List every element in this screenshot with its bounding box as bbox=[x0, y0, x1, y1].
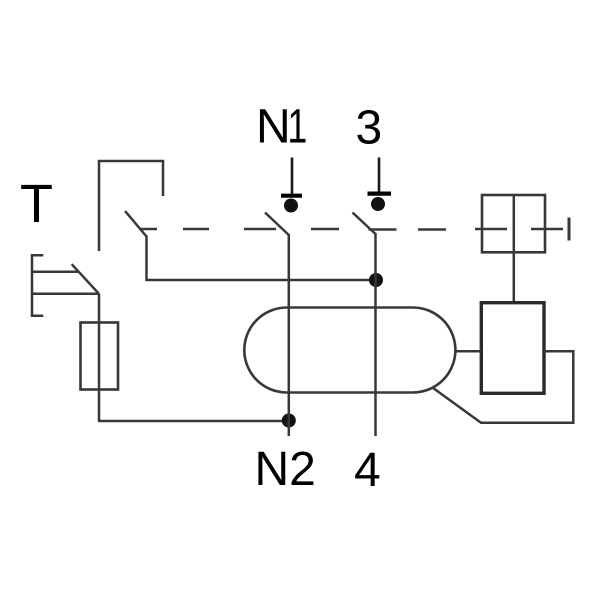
node N2 junction bbox=[282, 414, 296, 428]
switch contact blade (phase pole 3) bbox=[353, 213, 376, 235]
wire: CT secondary to relay (left) bbox=[455, 350, 481, 353]
switch contact blade (left pole, test circuit) bbox=[125, 211, 147, 237]
test button contact lower line bbox=[32, 293, 99, 296]
test button contact blade bbox=[72, 264, 99, 294]
trip relay box bbox=[481, 303, 544, 394]
switch contact blade (neutral pole N1) bbox=[265, 213, 289, 236]
wire: test circuit bottom run to N2 bbox=[98, 420, 289, 423]
terminal bar N1 bbox=[281, 194, 302, 198]
terminal dot N1 bbox=[284, 199, 298, 213]
mechanical linkage dash 1 bbox=[141, 228, 157, 231]
test button actuator bracket bbox=[32, 255, 43, 315]
terminal lead 3 bbox=[378, 158, 381, 196]
mechanical linkage dash 8 bbox=[531, 228, 563, 231]
mechanical linkage dash 5 bbox=[369, 228, 397, 231]
trip mechanism box (divided square) bbox=[482, 195, 545, 252]
trip mechanism divider / wire to relay bbox=[513, 195, 516, 303]
mechanical linkage dash 3 bbox=[244, 228, 276, 231]
wire: left pole down bbox=[147, 236, 377, 281]
wire: test-circuit upper hook (from left pole up and over) bbox=[99, 161, 163, 251]
svg-text:3: 3 bbox=[356, 102, 383, 155]
mechanical linkage dash 4 bbox=[311, 228, 339, 231]
mechanical linkage dash 6 bbox=[418, 228, 446, 231]
terminal dot 3 bbox=[371, 197, 385, 211]
mechanical linkage dash 7 bbox=[475, 228, 507, 231]
test button contact fixed line bbox=[32, 270, 79, 273]
svg-text:N: N bbox=[256, 101, 291, 154]
current transformer core (oval) bbox=[244, 308, 455, 393]
resistor (test resistor) bbox=[81, 323, 119, 390]
svg-text:N2: N2 bbox=[255, 443, 316, 496]
mechanical linkage end tick bbox=[568, 218, 571, 241]
svg-text:4: 4 bbox=[354, 444, 381, 497]
wire: neutral pole vertical N1-N2 bbox=[288, 234, 291, 436]
wire: relay right loop bbox=[433, 351, 574, 422]
label N1 bbox=[256, 99, 307, 153]
wire: test circuit down through resistor bbox=[98, 294, 101, 421]
wire: phase pole vertical 3-4 bbox=[374, 233, 377, 436]
terminal lead N1 bbox=[291, 158, 294, 198]
svg-text:1: 1 bbox=[288, 99, 308, 152]
terminal bar 3 bbox=[368, 192, 392, 196]
svg-text:T: T bbox=[20, 174, 53, 234]
mechanical linkage dash 2 bbox=[183, 228, 209, 231]
node: junction on phase wire bbox=[369, 273, 383, 287]
